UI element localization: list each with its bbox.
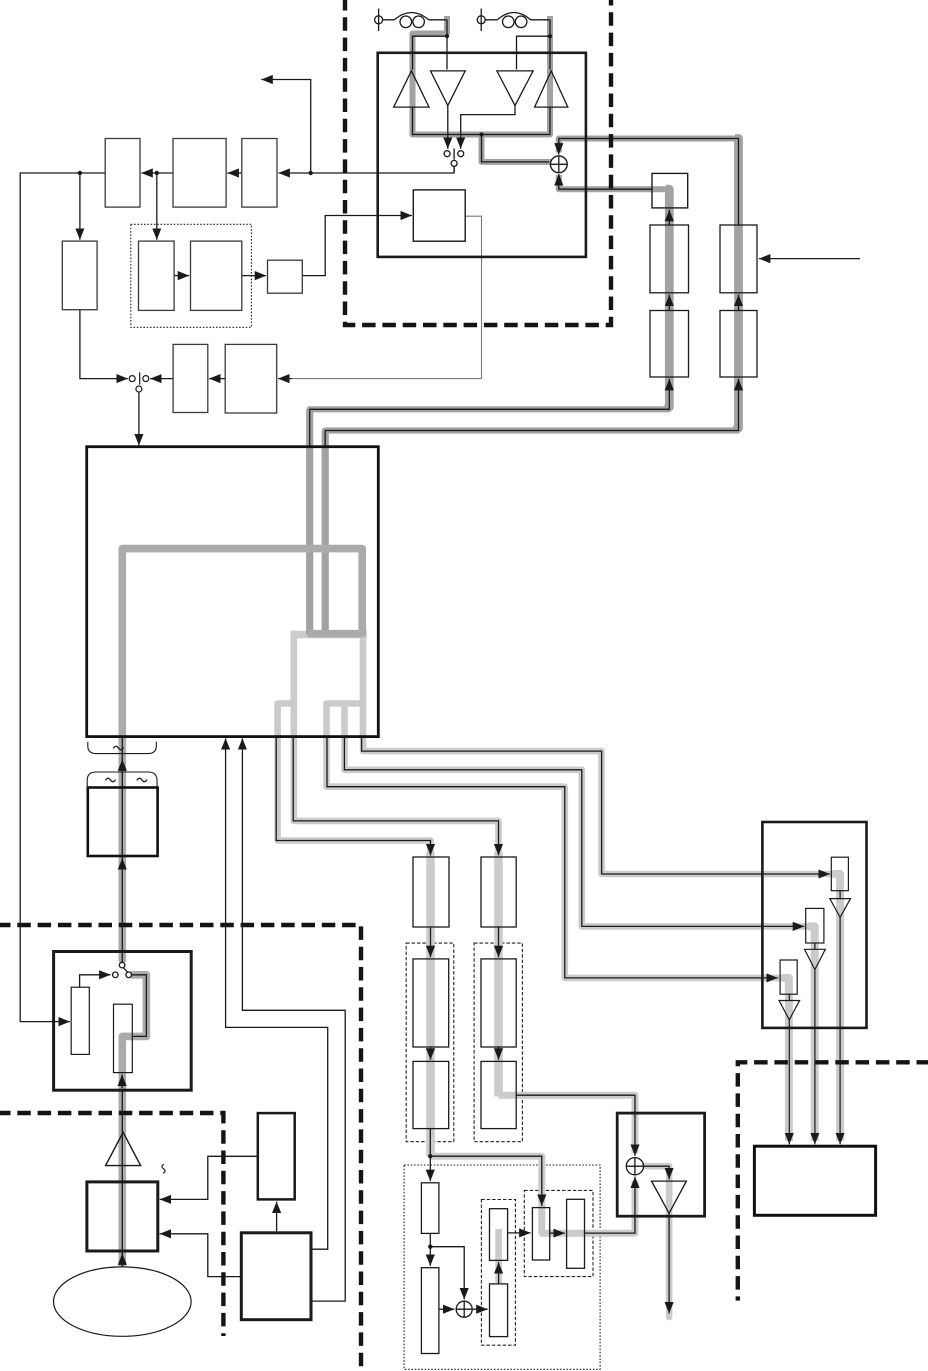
audio PA block xyxy=(87,1182,158,1251)
gray path light DAC3 column xyxy=(782,978,789,1141)
gray path I column fat xyxy=(666,189,669,409)
wire LNA-R to RF switch xyxy=(461,106,515,149)
duplexer block xyxy=(88,788,158,857)
gray path light column I chain xyxy=(426,852,435,1156)
DAC2 triangle xyxy=(805,949,826,969)
block D small xyxy=(268,260,303,293)
wire block D to PA control xyxy=(302,216,412,276)
wire controller to vco xyxy=(276,1202,278,1233)
tilde mark 3 xyxy=(137,778,147,781)
gray path antenna U in RF block xyxy=(413,16,551,135)
wire Q3 to TX summer top xyxy=(516,1095,635,1156)
amplifier PA-R (up triangle) xyxy=(535,71,568,107)
wire R antenna to amplifiers xyxy=(549,20,551,70)
switch pole circle xyxy=(119,962,125,968)
wire summer2 to block C2 xyxy=(472,1308,488,1310)
gray path light leg W4 xyxy=(345,701,809,927)
dotted box around synthesizer pair (top-left) xyxy=(131,224,252,327)
dashed audio region (bottom-left inner) xyxy=(0,1113,223,1336)
block Q filter 2 xyxy=(720,311,757,378)
wire between rect1 rect2 xyxy=(141,172,173,174)
block E xyxy=(532,1208,549,1260)
wire TX bottom bus xyxy=(413,107,551,134)
wire vco to audio PA input 1 xyxy=(160,1156,258,1199)
wire earpiece up through PA xyxy=(121,1090,123,1266)
wire I small box to RF summer bottom xyxy=(559,174,652,189)
block A xyxy=(62,241,97,310)
wire L antenna to amplifiers xyxy=(446,20,448,70)
block I filter 1 xyxy=(650,225,689,293)
amplifier LNA-R (down triangle) xyxy=(497,71,533,106)
block s2 TX xyxy=(114,1004,133,1072)
switch throw circles xyxy=(113,972,119,978)
gray path light main left leg W2 xyxy=(294,631,499,860)
amplifier buffer (down triangle) xyxy=(652,1181,687,1213)
block C2 xyxy=(490,1284,508,1337)
wire run A chip to I filter2 xyxy=(310,379,670,446)
block rect8 xyxy=(173,344,208,412)
node junction dot C on RX line xyxy=(309,171,313,175)
gray path Q column fat xyxy=(735,139,739,431)
wire branch down to block A xyxy=(79,173,81,240)
summing node 2 xyxy=(456,1301,472,1317)
node junction L xyxy=(445,34,449,38)
microphone ellipse xyxy=(54,1267,192,1336)
wire Q column to RF summer top xyxy=(559,139,739,226)
gray path light horizontal in chip xyxy=(291,631,367,638)
wire A2 to B2 with junction xyxy=(429,1233,431,1246)
wire summer to buffer triangle xyxy=(644,1166,670,1179)
wire TX up into s2 xyxy=(121,1075,123,1089)
RF block outline xyxy=(378,53,586,257)
gray path light branch to upconverter xyxy=(431,1156,636,1233)
dashed baseband region (bottom-left outer) xyxy=(0,925,361,1371)
TL switch circles xyxy=(129,376,149,392)
block I small (amp) xyxy=(652,173,688,208)
block Q1 xyxy=(481,857,516,927)
block rect9 xyxy=(225,344,277,413)
block D2 xyxy=(490,1209,508,1261)
wire RF switch pole down to main RX line xyxy=(453,166,455,172)
node junction dot B on RX line xyxy=(155,171,159,175)
vco block xyxy=(258,1113,295,1199)
wire I3 down to junction and branch xyxy=(429,1129,431,1157)
DAC block outline xyxy=(762,822,866,1028)
chip block outline xyxy=(87,447,379,737)
wire between rect2 rect3 xyxy=(227,172,241,174)
RF switch circles xyxy=(444,151,450,157)
block rect3 xyxy=(242,139,277,208)
wire bus to RF summer xyxy=(482,135,550,162)
block I filter 2 xyxy=(650,311,689,378)
gray path run A into chip xyxy=(310,409,668,416)
PA control block xyxy=(413,190,465,241)
wire control 2 from controller to chip xyxy=(242,738,345,1301)
DAC3 rect xyxy=(780,960,797,994)
DAC2 output xyxy=(814,970,816,1145)
antenna port R xyxy=(477,16,485,24)
wire Q1 to Q2 xyxy=(498,927,500,957)
wire TL switch pole down into chip xyxy=(138,392,140,445)
bracket cup xyxy=(88,742,157,754)
wire AGC output arrow (top-left) xyxy=(261,80,310,174)
wire block C to block D xyxy=(242,275,266,277)
wire branch down to block B xyxy=(156,173,158,240)
DAC3 output xyxy=(788,1020,790,1145)
DAC1 output xyxy=(839,917,841,1144)
gray path light DAC2 column xyxy=(808,926,815,1141)
codec block bottom-right xyxy=(754,1146,875,1215)
wire W4 chip to DAC2 xyxy=(344,737,804,927)
dashed inner box (modulator) xyxy=(481,1200,515,1346)
gray path light column Q chain xyxy=(494,852,503,1097)
wire block A down to TL switch xyxy=(80,310,128,379)
wire block B to block C xyxy=(174,275,189,277)
squiggle mark xyxy=(162,1164,165,1173)
block s1 RX xyxy=(71,987,89,1054)
wire W1 chip to block I1 xyxy=(276,737,430,856)
DAC1 rect xyxy=(831,857,848,891)
block B2 xyxy=(421,1268,439,1354)
DAC2 rect xyxy=(806,908,824,943)
antenna port L xyxy=(375,16,383,24)
tilde mark 1 xyxy=(113,746,123,749)
dotted box bottom-middle group xyxy=(404,1165,600,1369)
wire W3 chip to DAC3 xyxy=(327,737,778,978)
block Q2 xyxy=(481,959,516,1047)
gray path light stub through DAC rect D xyxy=(495,1229,502,1283)
gray path U junction to RF summer xyxy=(482,132,553,162)
block A2 xyxy=(421,1183,439,1234)
block Q filter 1 xyxy=(720,225,757,293)
controller block xyxy=(241,1233,311,1320)
inductor L2 xyxy=(485,13,550,21)
dashed region (bottom-right) xyxy=(738,1062,928,1300)
gray path light leg W5 xyxy=(363,629,833,874)
dashed RF front-end region (top) xyxy=(345,0,611,325)
thin blocks top-left xyxy=(62,139,302,414)
wire C2 up to D2 xyxy=(498,1262,500,1284)
wire into RX block s1 xyxy=(80,975,111,987)
wire main RX line to demod blocks xyxy=(278,166,454,173)
DAC3 triangle xyxy=(779,1001,800,1020)
combiner box outline xyxy=(617,1113,704,1216)
amplifier audio (up triangle) xyxy=(106,1132,141,1165)
wire I2 to I3 xyxy=(430,1047,432,1060)
gray path light summer output through buffer xyxy=(643,1166,670,1317)
block Q3 xyxy=(481,1061,516,1128)
node junction R xyxy=(548,34,552,38)
wire right throw to block s2 xyxy=(132,975,147,1037)
block C xyxy=(191,241,242,310)
DAC1 triangle xyxy=(830,899,851,918)
node junction on bus xyxy=(479,132,483,136)
wire rect1 to far-left vertical down to RX switch box xyxy=(20,173,105,1022)
gray path light trident bar + leg W3 xyxy=(327,704,784,978)
switch box outline xyxy=(54,952,192,1091)
wire junction to summer2 top xyxy=(430,1247,464,1300)
wire chip to duplexer (central) xyxy=(121,737,123,962)
block I2 xyxy=(413,959,449,1047)
bracket cap xyxy=(87,772,157,786)
node junction dot A on RX line xyxy=(78,171,82,175)
inductor L1 xyxy=(383,13,447,21)
block I1 xyxy=(413,857,449,927)
wire B2 to summer2 xyxy=(439,1308,455,1310)
wire run B chip to Q filter2 xyxy=(325,379,738,446)
wire rect9 to rect8 xyxy=(209,378,225,380)
wire W2 chip to block Q1 xyxy=(293,737,498,856)
wire Q2 to Q3 xyxy=(498,1047,500,1060)
wire rect8 to TL switch right throw xyxy=(150,378,173,380)
wire I1 to I2 xyxy=(430,927,432,957)
summing node TX xyxy=(626,1158,643,1175)
block I3 xyxy=(413,1061,449,1128)
wire Q filter2 to filter1 xyxy=(738,295,740,311)
amplifier LNA-L (down triangle) xyxy=(431,71,466,106)
wire F to TX summer bottom xyxy=(585,1177,636,1234)
wire I filter1 to small box xyxy=(668,210,670,225)
tilde mark 2 xyxy=(105,778,115,781)
wire control 1 from controller to chip xyxy=(226,738,328,1249)
gray path chip-internal medium tree to antenna switch xyxy=(122,549,362,962)
block F xyxy=(567,1199,585,1268)
wire external input to Q filter1 xyxy=(759,258,860,260)
summing node RF xyxy=(550,156,567,173)
block B xyxy=(139,241,175,310)
gray path run B into chip xyxy=(325,431,737,438)
wire W5 chip to DAC1 xyxy=(362,737,830,874)
wire LNA-L to RF switch xyxy=(447,106,449,149)
gray path RF summer top wire xyxy=(559,139,736,153)
wire buffer output down xyxy=(668,1213,670,1313)
dashed inner box (upconverter) xyxy=(524,1190,593,1276)
gray path light DAC1 column xyxy=(833,874,840,1141)
gray path chip-internal light tree left fork xyxy=(278,704,431,861)
gray path RF summer bottom wire xyxy=(559,175,667,189)
gray path TX from switch to earpiece xyxy=(122,975,146,1266)
wire I filter2 to filter1 xyxy=(668,295,670,311)
dashed filter column box I xyxy=(406,943,454,1142)
amplifier PA-L (up triangle) xyxy=(394,71,429,107)
block rect2 xyxy=(173,139,226,208)
wire controller to audio PA input 2 xyxy=(160,1234,242,1277)
transversal control wire PA control to rect9 (gray thin) xyxy=(283,216,482,378)
dashed filter column box Q xyxy=(474,943,522,1142)
wire D2 to block E xyxy=(508,1232,531,1234)
gray path light branch to TX summer xyxy=(499,1095,636,1153)
block rect1 xyxy=(105,139,140,208)
wire E to F xyxy=(550,1232,565,1234)
switch blade xyxy=(123,968,127,973)
